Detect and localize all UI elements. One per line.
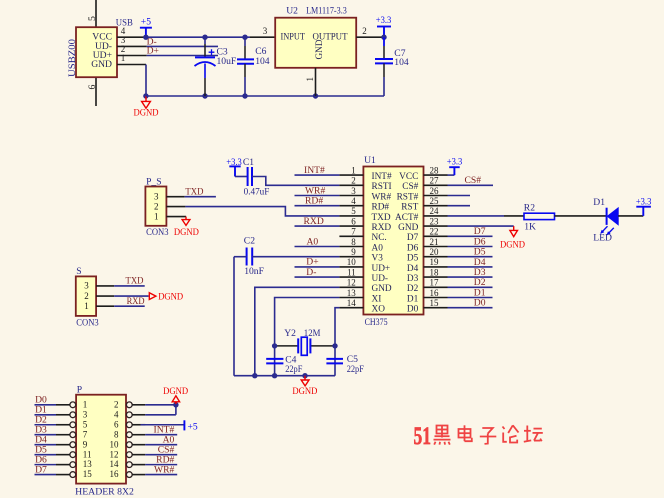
svg-text:C1: C1 [243, 157, 254, 168]
svg-text:CON3: CON3 [146, 227, 169, 238]
svg-text:V3: V3 [372, 254, 384, 264]
svg-text:Y2: Y2 [284, 328, 296, 339]
svg-text:21: 21 [430, 237, 439, 247]
svg-text:1: 1 [84, 301, 89, 311]
svg-text:R2: R2 [524, 202, 535, 213]
svg-text:16: 16 [430, 288, 440, 298]
svg-text:DGND: DGND [158, 292, 183, 303]
svg-text:NC.: NC. [372, 233, 387, 243]
svg-text:RSTI: RSTI [372, 182, 392, 192]
svg-text:WR#: WR# [154, 465, 174, 476]
svg-text:WR#: WR# [372, 192, 392, 202]
svg-text:LM1117-3.3: LM1117-3.3 [306, 5, 347, 16]
svg-text:GND: GND [398, 223, 418, 233]
svg-text:LED: LED [593, 233, 612, 244]
svg-text:20: 20 [430, 247, 440, 257]
svg-text:12: 12 [347, 278, 356, 288]
svg-text:2: 2 [84, 291, 89, 301]
svg-text:+3.3: +3.3 [447, 156, 463, 167]
svg-text:6: 6 [351, 216, 356, 226]
svg-text:CS#: CS# [402, 182, 418, 192]
svg-text:8: 8 [351, 237, 356, 247]
svg-text:D7: D7 [35, 464, 47, 475]
svg-text:51: 51 [414, 423, 432, 450]
svg-text:23: 23 [430, 216, 440, 226]
svg-text:10nF: 10nF [244, 266, 264, 277]
svg-text:D+: D+ [147, 45, 159, 56]
svg-text:24: 24 [430, 206, 440, 216]
svg-text:INPUT: INPUT [281, 32, 306, 43]
svg-text:ACT#: ACT# [395, 213, 419, 223]
svg-text:2: 2 [154, 201, 159, 211]
svg-text:22pF: 22pF [285, 364, 302, 375]
svg-text:17: 17 [430, 278, 440, 288]
svg-text:XO: XO [372, 305, 386, 315]
svg-text:DGND: DGND [500, 240, 525, 251]
svg-text:S: S [76, 266, 81, 277]
svg-text:14: 14 [110, 459, 120, 469]
svg-text:DGND: DGND [292, 386, 317, 397]
svg-text:RD#: RD# [372, 203, 390, 213]
svg-text:+5: +5 [188, 422, 198, 433]
svg-text:+3.3: +3.3 [376, 15, 392, 26]
svg-text:D2: D2 [407, 284, 419, 294]
svg-text:0.47uF: 0.47uF [244, 186, 270, 197]
svg-text:22: 22 [430, 227, 439, 237]
svg-text:8: 8 [114, 429, 119, 439]
svg-text:USBZ00: USBZ00 [67, 39, 78, 77]
svg-text:25: 25 [430, 196, 440, 206]
svg-text:GND: GND [91, 59, 112, 70]
svg-text:13: 13 [83, 459, 93, 469]
svg-text:1: 1 [121, 53, 126, 63]
svg-text:U2: U2 [286, 5, 298, 16]
svg-text:14: 14 [347, 298, 357, 308]
svg-text:GND: GND [372, 284, 392, 294]
svg-text:RST#: RST# [397, 192, 419, 202]
svg-text:1K: 1K [524, 221, 536, 232]
svg-text:U1: U1 [364, 155, 376, 166]
svg-text:CS#: CS# [465, 175, 482, 186]
svg-text:7: 7 [83, 429, 88, 439]
svg-text:7: 7 [351, 227, 356, 237]
svg-text:9: 9 [83, 439, 88, 449]
svg-text:6: 6 [87, 85, 98, 90]
svg-text:2: 2 [114, 399, 119, 409]
svg-text:10uF: 10uF [217, 56, 237, 67]
svg-text:D4: D4 [407, 264, 419, 274]
svg-text:RXD: RXD [127, 296, 145, 307]
svg-text:12: 12 [110, 449, 119, 459]
svg-text:TXD: TXD [372, 213, 391, 223]
svg-text:4: 4 [114, 409, 119, 419]
svg-text:RD#: RD# [305, 196, 323, 207]
svg-text:10: 10 [347, 257, 357, 267]
svg-text:D0: D0 [407, 305, 419, 315]
svg-text:3: 3 [351, 186, 356, 196]
svg-text:16: 16 [110, 469, 120, 479]
svg-text:VCC: VCC [399, 172, 418, 182]
svg-text:1: 1 [305, 77, 315, 82]
svg-text:22pF: 22pF [347, 364, 364, 375]
svg-text:A0: A0 [307, 236, 319, 247]
svg-text:1: 1 [83, 399, 88, 409]
svg-text:TXD: TXD [185, 187, 203, 198]
svg-text:5: 5 [83, 419, 88, 429]
svg-text:15: 15 [430, 298, 440, 308]
svg-text:104: 104 [394, 57, 409, 68]
svg-text:D7: D7 [407, 233, 419, 243]
svg-text:+5: +5 [141, 17, 151, 28]
svg-text:RST: RST [401, 203, 418, 213]
svg-text:5: 5 [87, 16, 98, 21]
svg-text:2: 2 [362, 26, 367, 36]
svg-text:TXD: TXD [126, 276, 144, 287]
svg-text:28: 28 [430, 165, 440, 175]
svg-text:RXD: RXD [304, 216, 324, 227]
svg-text:CH375: CH375 [365, 317, 388, 328]
svg-text:UD+: UD+ [372, 264, 391, 274]
svg-text:UD-: UD- [372, 274, 389, 284]
svg-text:10: 10 [110, 439, 120, 449]
svg-text:3: 3 [154, 191, 159, 201]
svg-text:15: 15 [83, 469, 93, 479]
svg-text:26: 26 [430, 186, 440, 196]
svg-text:D5: D5 [407, 254, 419, 264]
svg-text:P_S: P_S [146, 177, 161, 188]
svg-text:5: 5 [351, 206, 356, 216]
svg-text:DGND: DGND [163, 386, 188, 397]
svg-text:6: 6 [114, 419, 119, 429]
svg-text:A0: A0 [372, 243, 384, 253]
svg-text:XI: XI [372, 294, 382, 304]
svg-text:CON3: CON3 [76, 317, 99, 328]
svg-text:D0: D0 [474, 298, 486, 309]
svg-text:USB: USB [116, 17, 133, 28]
svg-text:GND: GND [314, 39, 325, 59]
svg-text:DGND: DGND [174, 227, 199, 238]
svg-text:3: 3 [84, 281, 89, 291]
svg-text:D1: D1 [593, 197, 605, 208]
svg-text:19: 19 [430, 257, 440, 267]
svg-text:1: 1 [351, 165, 356, 175]
svg-text:27: 27 [430, 176, 440, 186]
svg-text:HEADER 8X2: HEADER 8X2 [75, 487, 134, 498]
svg-text:INT#: INT# [372, 172, 392, 182]
svg-text:3: 3 [263, 26, 268, 36]
svg-text:4: 4 [351, 196, 356, 206]
svg-text:D1: D1 [407, 294, 419, 304]
svg-text:RXD: RXD [372, 223, 392, 233]
svg-text:11: 11 [83, 449, 92, 459]
svg-text:+3.3: +3.3 [636, 197, 652, 208]
svg-text:2: 2 [351, 176, 356, 186]
svg-text:P: P [77, 385, 82, 396]
svg-text:104: 104 [255, 56, 270, 67]
svg-text:D6: D6 [407, 243, 419, 253]
svg-text:3: 3 [83, 409, 88, 419]
svg-text:C2: C2 [244, 235, 255, 246]
svg-text:18: 18 [430, 267, 440, 277]
svg-text:9: 9 [351, 247, 356, 257]
svg-text:11: 11 [347, 267, 356, 277]
svg-text:D-: D- [306, 267, 316, 278]
svg-text:DGND: DGND [134, 108, 159, 119]
svg-text:INT#: INT# [304, 165, 325, 176]
svg-text:D3: D3 [407, 274, 419, 284]
svg-text:13: 13 [347, 288, 357, 298]
svg-text:1: 1 [154, 211, 159, 221]
